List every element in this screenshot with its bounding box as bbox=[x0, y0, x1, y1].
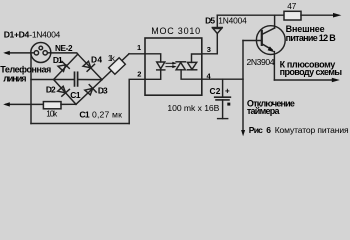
wire emitter to plus arrow bbox=[274, 79, 333, 81]
svg-text:таймера: таймера bbox=[247, 106, 281, 116]
wire emitter down bbox=[273, 52, 275, 80]
wire bridge edge S-E bbox=[76, 80, 102, 105]
label Рис 6 Комутатор питания bbox=[249, 125, 349, 135]
svg-text:MOC 3010: MOC 3010 bbox=[151, 26, 200, 36]
diode D5 bbox=[212, 28, 222, 34]
capacitor C1 plates bbox=[75, 72, 78, 86]
triac inside MOC bbox=[176, 62, 197, 70]
svg-text:D4: D4 bbox=[91, 54, 102, 64]
wire MOC pin1 internal bbox=[145, 54, 161, 62]
wire bridge middle left bbox=[31, 79, 74, 81]
label Внешнее питание 12 В bbox=[286, 24, 337, 43]
svg-text:1N4004: 1N4004 bbox=[218, 16, 247, 26]
wire collector to top rail bbox=[274, 15, 276, 28]
wire bottom return rail bbox=[31, 123, 129, 125]
wire LED to MOC pin2 internal bbox=[145, 70, 161, 79]
svg-text:2N3904: 2N3904 bbox=[247, 57, 275, 67]
wire bridge middle right bbox=[78, 79, 102, 81]
svg-text:C1: C1 bbox=[79, 109, 90, 119]
svg-text:Рис: Рис bbox=[249, 125, 263, 135]
wire MOC pin2 to bottom return bbox=[129, 79, 145, 123]
diode D2 bbox=[58, 86, 70, 96]
wire D5 to top rail bbox=[216, 15, 218, 27]
svg-text:D1+D4: D1+D4 bbox=[4, 29, 30, 39]
svg-text:Комутатор питания: Комутатор питания bbox=[275, 125, 349, 135]
capacitor C2 bbox=[215, 79, 231, 118]
wire MOC pin4 to timer node bbox=[202, 78, 243, 80]
diode D3 bbox=[85, 85, 96, 95]
svg-text:D3: D3 bbox=[98, 85, 108, 95]
svg-text:1: 1 bbox=[137, 43, 141, 52]
resistor 1k bbox=[109, 58, 126, 75]
svg-text:0,27 мк: 0,27 мк bbox=[92, 109, 122, 119]
wire telephone bottom bbox=[6, 103, 43, 105]
wire 47 to external power arrow bbox=[301, 14, 334, 16]
wire bridge edge W-S bbox=[54, 80, 76, 105]
svg-text:питание 12 В: питание 12 В bbox=[286, 33, 337, 43]
LED inside MOC bbox=[157, 62, 165, 70]
svg-text:линия: линия bbox=[3, 74, 26, 84]
wire 1k corner to MOC pin1 bbox=[129, 53, 145, 55]
arrow to telephone line top bbox=[3, 51, 10, 55]
wire top rail bbox=[217, 14, 284, 16]
transistor Q1 2N3904 bbox=[256, 26, 285, 55]
wire bridge edge N-E bbox=[78, 54, 102, 79]
label C1 0,27 mk bbox=[79, 109, 122, 119]
svg-text:47: 47 bbox=[287, 2, 296, 11]
wire 10k to bridge node S bbox=[61, 103, 76, 105]
diode D1 bbox=[58, 61, 69, 71]
wire NE-2 to bridge node N bbox=[51, 53, 78, 54]
svg-text:10k: 10k bbox=[46, 110, 58, 119]
wire MOC pin3 to D5 bbox=[202, 34, 218, 54]
svg-text:100 mk x 16В: 100 mk x 16В bbox=[167, 103, 219, 113]
neon lamp NE-2 bbox=[31, 43, 51, 63]
svg-text:1k: 1k bbox=[108, 54, 116, 63]
svg-text:NE-2: NE-2 bbox=[55, 44, 73, 53]
svg-text:C2: C2 bbox=[210, 86, 221, 96]
label Отключение таймера bbox=[247, 99, 295, 116]
label К плюсовому проводу схемы bbox=[280, 60, 343, 77]
resistor 10k bbox=[43, 102, 61, 109]
wire bridge E to 1k corner bbox=[102, 54, 129, 80]
wire timer vertical bbox=[242, 41, 244, 131]
resistor 47 bbox=[284, 11, 301, 20]
arrow to telephone line bottom bbox=[3, 102, 10, 106]
svg-text:C1: C1 bbox=[70, 90, 81, 100]
svg-text:D1: D1 bbox=[53, 55, 63, 65]
svg-text:-1N4004: -1N4004 bbox=[29, 29, 60, 39]
arrow to plus wire of circuit bbox=[332, 78, 340, 82]
label D1+D4-1N4004 bbox=[4, 29, 61, 39]
wire base bbox=[243, 40, 261, 42]
wire left vertical phone to return rail bbox=[30, 53, 32, 124]
svg-text:6: 6 bbox=[266, 125, 271, 135]
optocoupler U1 MOC3010 box bbox=[145, 38, 202, 95]
label D5 1N4004 bbox=[205, 16, 247, 26]
optocoupler light arrows bbox=[166, 62, 177, 68]
svg-text:+: + bbox=[225, 87, 230, 96]
wire triac top to MOC pin3 bbox=[192, 54, 202, 62]
svg-text:проводу схемы: проводу схемы bbox=[280, 67, 343, 77]
wire triac bottom to MOC pin4 bbox=[181, 70, 202, 79]
svg-text:3: 3 bbox=[207, 45, 211, 54]
wire bridge edge W-N bbox=[54, 54, 78, 79]
label Телефонная линия bbox=[0, 64, 51, 83]
svg-text:D5: D5 bbox=[205, 16, 215, 26]
svg-text:2: 2 bbox=[137, 69, 141, 78]
wire telephone top bbox=[6, 52, 31, 54]
arrow timer disconnect bbox=[241, 130, 245, 136]
svg-text:D2: D2 bbox=[46, 85, 56, 95]
diode D4 bbox=[83, 61, 95, 71]
arrow to external power bbox=[333, 13, 341, 18]
